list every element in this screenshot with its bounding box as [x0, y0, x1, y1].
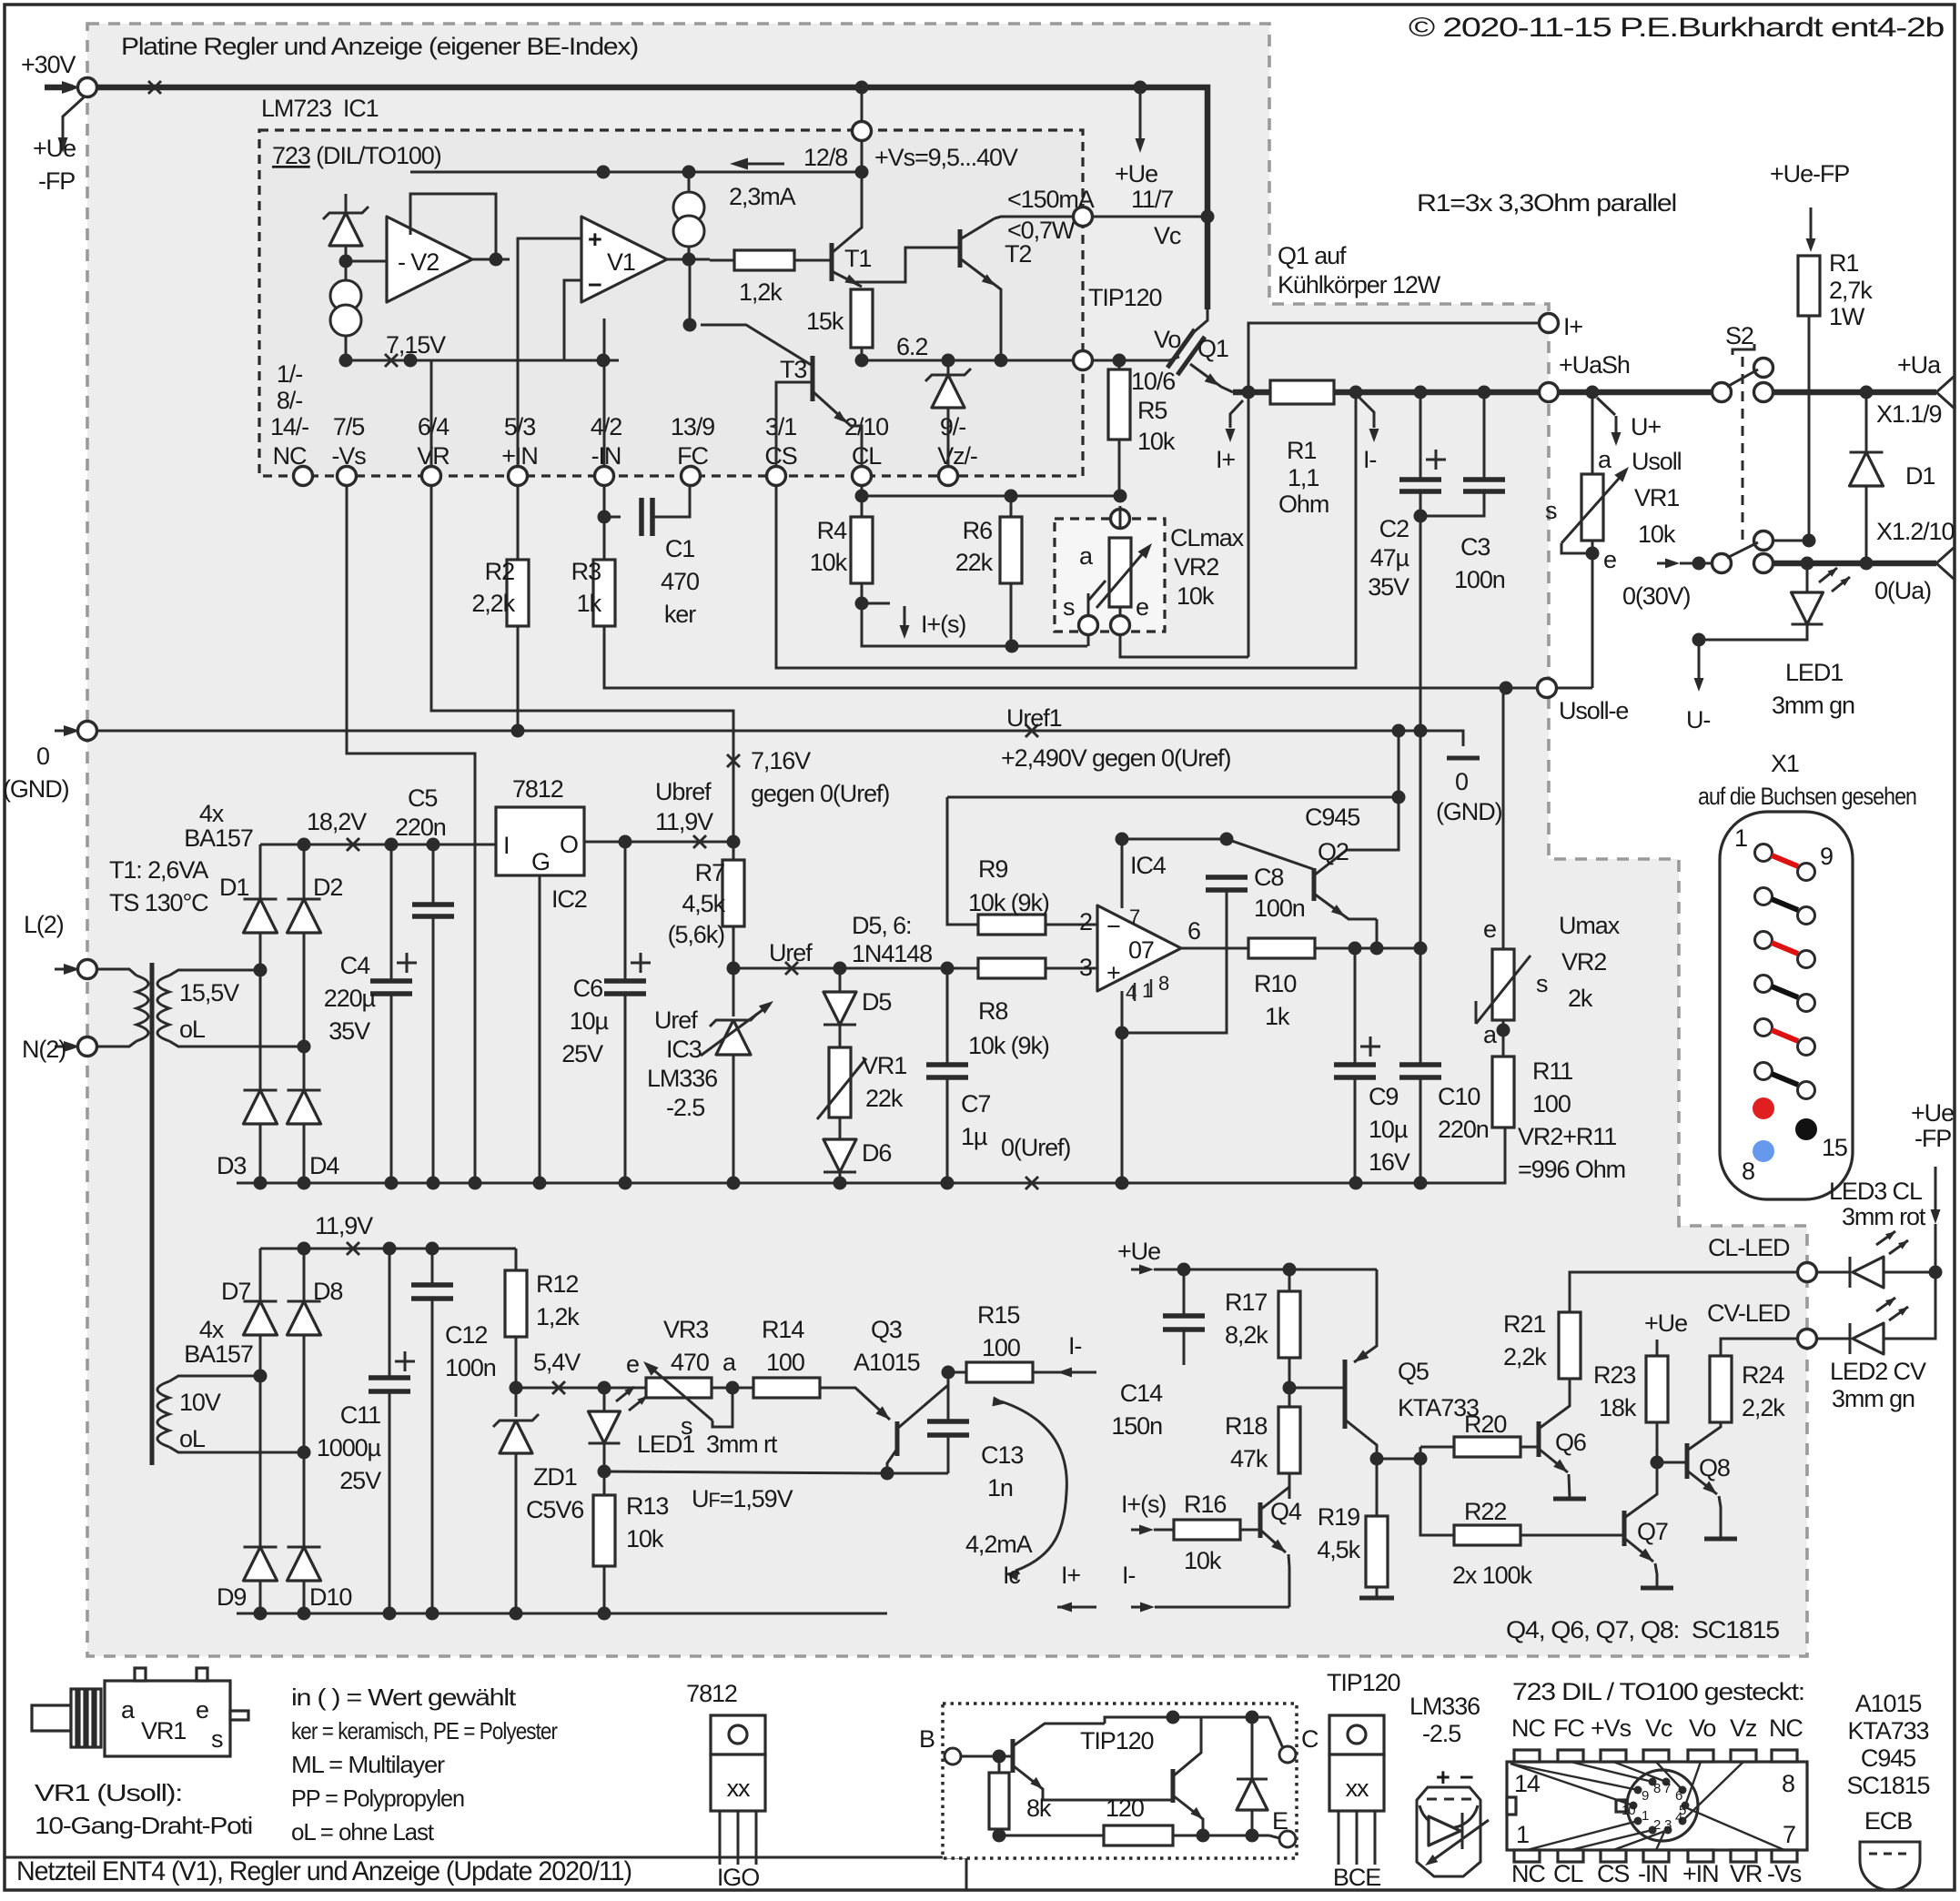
svg-text:Usoll: Usoll — [1632, 448, 1682, 475]
svg-text:ker: ker — [664, 601, 696, 628]
svg-text:© 2020-11-15 P.E.Burkhardt ent: © 2020-11-15 P.E.Burkhardt ent4-2b — [1409, 13, 1945, 43]
svg-text:7,16V: 7,16V — [751, 747, 811, 774]
svg-text:IC2: IC2 — [551, 885, 587, 913]
svg-text:8: 8 — [1158, 972, 1169, 995]
svg-text:47k: 47k — [1230, 1445, 1268, 1472]
wire 0(30V) stub — [1665, 559, 1680, 569]
svg-text:Netzteil ENT4 (V1), Regler und: Netzteil ENT4 (V1), Regler und Anzeige (… — [16, 1856, 631, 1886]
terminal N(2) — [55, 1046, 73, 1048]
diode D1b — [259, 844, 262, 899]
svg-text:gegen 0(Uref): gegen 0(Uref) — [751, 780, 889, 807]
svg-text:S2: S2 — [1725, 322, 1753, 349]
svg-text:2: 2 — [1653, 1817, 1661, 1833]
svg-text:I-: I- — [1068, 1332, 1081, 1360]
terminal E — [1269, 1835, 1283, 1839]
svg-text:-2.5: -2.5 — [1422, 1720, 1460, 1747]
wire VR pin up — [430, 360, 433, 467]
723 TO100 circle — [1627, 1770, 1698, 1841]
diode D10 — [303, 1452, 306, 1547]
diode D6 — [839, 1117, 842, 1139]
transistor Q3 A1015 — [819, 1388, 890, 1420]
svg-text:CS: CS — [764, 442, 796, 470]
svg-text:CL: CL — [852, 442, 882, 470]
svg-text:11,9V: 11,9V — [315, 1212, 373, 1239]
svg-text:R17: R17 — [1225, 1289, 1267, 1316]
svg-text:D5, 6:: D5, 6: — [852, 912, 911, 939]
pot VR2 Umax — [1502, 688, 1505, 949]
wire T2 emitter to Vo — [1000, 300, 1003, 360]
wire Uref — [733, 967, 947, 970]
svg-text:G: G — [531, 848, 550, 875]
svg-text:TIP120: TIP120 — [1080, 1727, 1154, 1754]
svg-text:U+: U+ — [1631, 413, 1661, 440]
wire T1 collector to +Vs — [861, 172, 864, 202]
wire 7812 out — [584, 841, 733, 844]
transformer T1 lower secondary — [169, 1376, 260, 1381]
transistor Q1 TIP120 — [1169, 357, 1179, 360]
svg-text:NC: NC — [1511, 1714, 1545, 1742]
svg-text:- V2: - V2 — [398, 248, 439, 276]
svg-text:s: s — [1545, 497, 1557, 524]
svg-text:FC: FC — [677, 442, 708, 470]
svg-text:<0,7W: <0,7W — [1007, 217, 1076, 244]
transistor Q7 — [1622, 1511, 1627, 1546]
svg-text:0: 0 — [1455, 768, 1468, 795]
wire R24 top CV — [1721, 1339, 1797, 1356]
svg-text:−: − — [588, 271, 601, 298]
svg-text:R6: R6 — [963, 517, 992, 544]
wire T1e to T2 base — [855, 248, 960, 282]
capacitor C6 — [624, 842, 627, 981]
wire Q2 collector — [1377, 731, 1399, 850]
capacitor C4 — [390, 844, 393, 981]
svg-text:15k: 15k — [806, 308, 844, 335]
svg-text:IC4: IC4 — [1130, 852, 1167, 879]
svg-text:Q4, Q6, Q7, Q8: SC1815: Q4, Q6, Q7, Q8: SC1815 — [1506, 1616, 1779, 1643]
svg-text:Vo: Vo — [1689, 1714, 1715, 1742]
wire VR3 wiper tie — [712, 1388, 732, 1427]
svg-text:9/-: 9/- — [940, 413, 965, 440]
svg-text:V1: V1 — [607, 248, 635, 276]
svg-text:IGO: IGO — [717, 1864, 759, 1891]
wire Q2 base net — [1122, 839, 1313, 869]
svg-text:C7: C7 — [961, 1090, 990, 1117]
transistor T1 — [830, 243, 834, 281]
svg-text:CL: CL — [1553, 1860, 1583, 1887]
svg-text:10/6: 10/6 — [1131, 368, 1175, 395]
node VR3 a — [726, 1381, 740, 1395]
svg-text:VR1: VR1 — [141, 1717, 186, 1744]
svg-text:R3: R3 — [571, 558, 601, 585]
svg-text:VR: VR — [1730, 1860, 1763, 1887]
svg-text:D5: D5 — [862, 988, 891, 1016]
svg-text:BA157: BA157 — [184, 824, 253, 852]
svg-text:a: a — [1079, 542, 1094, 570]
svg-text:1,2k: 1,2k — [739, 278, 783, 306]
svg-text:4/2: 4/2 — [591, 413, 621, 440]
resistor R3 — [593, 560, 615, 626]
723 crossing wires — [1510, 1764, 1633, 1805]
svg-text:R13: R13 — [626, 1492, 668, 1520]
svg-text:+IN: +IN — [501, 442, 537, 470]
transistor TQ1 — [1011, 1739, 1015, 1773]
pot pins s e — [1079, 616, 1098, 635]
svg-text:a: a — [1598, 446, 1612, 473]
svg-text:LED1 3mm rt: LED1 3mm rt — [637, 1431, 778, 1458]
svg-text:s: s — [681, 1412, 692, 1440]
svg-text:VR2+R11: VR2+R11 — [1518, 1123, 1616, 1150]
svg-text:I+: I+ — [1216, 446, 1235, 473]
svg-text:10k: 10k — [626, 1525, 664, 1552]
TIP120 equivalent box — [943, 1704, 1297, 1858]
switch S2 pole2 — [1712, 554, 1732, 573]
wire Vo rail — [862, 359, 1074, 362]
svg-text:BA157: BA157 — [184, 1340, 253, 1368]
svg-text:14/-: 14/- — [270, 413, 308, 440]
capacitor C5 — [432, 844, 435, 905]
svg-text:R16: R16 — [1184, 1491, 1226, 1518]
svg-text:+Ue: +Ue — [1644, 1309, 1687, 1337]
resistor VR2 CLmax pot — [1111, 510, 1130, 529]
svg-text:e: e — [1603, 546, 1616, 573]
resistor 8k — [998, 1756, 1001, 1773]
resistor R1 1,1 — [1270, 380, 1334, 404]
svg-text:FC: FC — [1553, 1714, 1584, 1742]
resistor R11 — [1492, 1057, 1514, 1127]
I- stub q4 — [1140, 1603, 1155, 1613]
svg-text:723 DIL / TO100 gesteckt:: 723 DIL / TO100 gesteckt: — [1512, 1678, 1804, 1705]
node Q3c — [881, 1467, 894, 1481]
svg-text:(GND): (GND) — [3, 775, 69, 803]
wire LED node run — [604, 1471, 887, 1473]
svg-text:Q4: Q4 — [1270, 1498, 1302, 1525]
svg-text:22k: 22k — [865, 1085, 904, 1112]
wire 11,9V rail — [260, 1248, 516, 1250]
wire V2 feedback — [346, 260, 387, 263]
wire usoll-e — [1500, 682, 1513, 695]
svg-text:35V: 35V — [1368, 573, 1409, 601]
svg-text:R1: R1 — [1287, 437, 1316, 464]
svg-text:11,9V: 11,9V — [655, 808, 713, 835]
svg-text:2k: 2k — [1568, 985, 1593, 1012]
svg-text:D1: D1 — [219, 874, 248, 901]
wire CL pin down — [861, 486, 864, 517]
svg-text:18k: 18k — [1599, 1394, 1637, 1421]
LED1 green — [1806, 563, 1809, 592]
ref IC3 LM336 — [732, 968, 735, 1016]
resistor R13 — [603, 1471, 606, 1495]
svg-text:12/8: 12/8 — [803, 144, 847, 171]
svg-text:10k: 10k — [1638, 521, 1676, 548]
svg-text:e: e — [1483, 915, 1496, 943]
svg-text:7812: 7812 — [512, 775, 563, 803]
svg-text:D8: D8 — [313, 1278, 342, 1305]
svg-text:I+(s): I+(s) — [921, 611, 965, 638]
resistor R15 — [948, 1371, 966, 1374]
svg-text:NC: NC — [1511, 1860, 1545, 1887]
svg-text:+UaSh: +UaSh — [1559, 351, 1630, 379]
svg-text:100: 100 — [766, 1349, 804, 1376]
wire s down — [1087, 635, 1090, 646]
wire C13 bottom — [887, 1472, 948, 1475]
svg-text:O: O — [560, 831, 578, 858]
svg-text:KTA733: KTA733 — [1848, 1717, 1929, 1744]
svg-text:15: 15 — [1822, 1134, 1847, 1161]
svg-text:D2: D2 — [313, 874, 342, 901]
svg-text:e: e — [1136, 593, 1148, 621]
S2 link dashed — [1742, 357, 1744, 546]
op-amp U-IC4 — [1097, 905, 1181, 991]
svg-text:Ubref: Ubref — [655, 778, 712, 805]
IC1 bottom pin circles — [294, 467, 313, 486]
node +30V terminal — [78, 78, 97, 97]
wire +Ue feed — [1131, 1269, 1139, 1271]
svg-text:+Vs=9,5...40V: +Vs=9,5...40V — [874, 144, 1018, 171]
svg-text:0(30V): 0(30V) — [1622, 582, 1691, 610]
wire 0(Uref) rail — [237, 1127, 1505, 1183]
svg-text:s: s — [1063, 593, 1075, 621]
LED3 CL red — [1817, 1271, 1850, 1274]
wire e down — [1120, 635, 1248, 657]
IC1 dashed box — [259, 130, 1083, 476]
svg-text:C2: C2 — [1379, 515, 1409, 542]
svg-text:Q5: Q5 — [1398, 1358, 1429, 1385]
svg-text:Q6: Q6 — [1555, 1429, 1586, 1456]
arrow I+(s) — [862, 602, 890, 605]
svg-text:a: a — [722, 1349, 737, 1376]
svg-text:CLmax: CLmax — [1170, 524, 1245, 551]
svg-text:C11: C11 — [340, 1401, 380, 1429]
svg-text:22k: 22k — [955, 549, 994, 576]
wire D bridge mid1 — [259, 970, 262, 1090]
svg-text:3: 3 — [1079, 954, 1092, 981]
svg-text:7: 7 — [1129, 905, 1140, 928]
svg-text:2,3mA: 2,3mA — [729, 183, 796, 210]
X1 colour dots — [1753, 1097, 1774, 1119]
wire 5,4V — [516, 1387, 647, 1390]
svg-text:-FP: -FP — [1915, 1125, 1951, 1152]
svg-text:1k: 1k — [1265, 1003, 1290, 1030]
wire R9 feedback top — [947, 796, 1399, 799]
svg-text:8/-: 8/- — [277, 387, 302, 414]
723 TO100 pins — [1634, 1786, 1642, 1795]
zener D internal — [323, 207, 369, 219]
wire GND rail — [97, 731, 1463, 746]
op-amp V1 — [581, 217, 667, 302]
diode D3 — [244, 1089, 278, 1092]
svg-text:5/3: 5/3 — [504, 413, 535, 440]
svg-text:220n: 220n — [395, 814, 446, 841]
svg-text:Vz/-: Vz/- — [937, 442, 977, 470]
svg-text:R18: R18 — [1225, 1412, 1267, 1440]
CV-LED terminal — [1798, 1330, 1817, 1349]
svg-text:xx: xx — [1346, 1775, 1369, 1802]
svg-text:s: s — [211, 1725, 223, 1753]
svg-text:10µ: 10µ — [1369, 1116, 1408, 1143]
svg-text:D4: D4 — [309, 1152, 339, 1179]
svg-text:C: C — [1301, 1725, 1318, 1753]
svg-text:10V: 10V — [179, 1389, 221, 1416]
svg-text:Usoll-e: Usoll-e — [1559, 697, 1628, 724]
svg-text:(GND): (GND) — [1436, 798, 1502, 825]
svg-text:R15: R15 — [977, 1301, 1019, 1329]
svg-text:R20: R20 — [1464, 1411, 1506, 1438]
svg-text:10k (9k): 10k (9k) — [968, 1032, 1049, 1059]
svg-text:R12: R12 — [536, 1270, 578, 1298]
arrow U+ stub — [1597, 398, 1615, 415]
svg-text:VR1: VR1 — [1634, 484, 1679, 511]
svg-text:220n: 220n — [1438, 1116, 1489, 1143]
svg-text:2x 100k: 2x 100k — [1452, 1562, 1532, 1589]
svg-text:2: 2 — [1079, 908, 1092, 935]
svg-text:NC: NC — [273, 442, 307, 470]
svg-text:100n: 100n — [1254, 895, 1305, 922]
pin Vo circle — [1074, 351, 1093, 370]
svg-text:+IN: +IN — [1682, 1860, 1718, 1887]
box CLmax — [1055, 519, 1165, 632]
resistor R17 — [1288, 1269, 1291, 1291]
svg-text:T1: T1 — [844, 245, 871, 272]
svg-text:5,4V: 5,4V — [533, 1349, 581, 1376]
diode D1 — [1865, 392, 1868, 452]
wire Q5 collector node — [1370, 1452, 1384, 1466]
svg-text:I-: I- — [1122, 1562, 1135, 1589]
svg-text:3/1: 3/1 — [765, 413, 796, 440]
svg-text:Vo: Vo — [1154, 326, 1180, 353]
svg-text:470: 470 — [671, 1349, 709, 1376]
svg-text:9: 9 — [1642, 1788, 1649, 1804]
svg-text:D3: D3 — [217, 1152, 246, 1179]
terminal +UaSh — [1540, 383, 1559, 402]
svg-text:(5,6k): (5,6k) — [668, 921, 725, 948]
svg-text:C4: C4 — [340, 952, 370, 979]
capacitor C9 — [1354, 948, 1357, 1065]
svg-text:Kühlkörper 12W: Kühlkörper 12W — [1278, 271, 1441, 298]
node int A — [339, 255, 353, 268]
svg-text:1,1: 1,1 — [1288, 464, 1318, 491]
terminal B — [945, 1748, 961, 1764]
svg-text:C5V6: C5V6 — [526, 1496, 583, 1523]
svg-text:D1: D1 — [1905, 462, 1935, 490]
svg-text:oL: oL — [179, 1425, 206, 1452]
svg-text:I: I — [503, 832, 509, 859]
svg-text:TIP120: TIP120 — [1088, 284, 1162, 311]
svg-text:+: + — [588, 226, 601, 253]
svg-text:7: 7 — [1663, 1781, 1671, 1796]
svg-text:10k (9k): 10k (9k) — [968, 889, 1049, 916]
svg-text:14: 14 — [1514, 1770, 1541, 1797]
svg-text:-IN: -IN — [1638, 1860, 1668, 1887]
terminal 0 GND — [55, 730, 73, 733]
svg-text:100n: 100n — [445, 1354, 496, 1381]
svg-text:R24: R24 — [1742, 1361, 1784, 1389]
svg-text:1W: 1W — [1829, 303, 1865, 330]
svg-text:1000µ: 1000µ — [317, 1434, 381, 1461]
svg-text:oL = ohne Last: oL = ohne Last — [291, 1818, 435, 1845]
svg-text:1/-: 1/- — [277, 360, 302, 388]
diode D2b — [303, 844, 306, 899]
svg-text:6: 6 — [1187, 917, 1200, 945]
resistor R19 — [1376, 1459, 1379, 1516]
node R15 left — [942, 1366, 955, 1380]
wire X1.2 rail — [1773, 561, 1936, 567]
svg-text:C945: C945 — [1861, 1744, 1915, 1772]
svg-text:10k: 10k — [1137, 428, 1176, 455]
svg-text:LM336: LM336 — [647, 1065, 717, 1092]
pot VR3 470 — [646, 1378, 712, 1398]
svg-text:L(2): L(2) — [24, 911, 64, 938]
svg-text:R8: R8 — [978, 997, 1007, 1025]
svg-text:11/7: 11/7 — [1131, 186, 1173, 213]
wire R4 bottom run — [862, 603, 1087, 646]
current source I1 — [330, 280, 361, 311]
X1 links — [1772, 855, 1798, 866]
svg-text:oL: oL — [179, 1016, 206, 1043]
svg-text:R2: R2 — [485, 558, 514, 585]
svg-text:4: 4 — [1675, 1810, 1682, 1825]
capacitor C8 — [1206, 875, 1248, 880]
diode D5 — [839, 968, 842, 992]
svg-text:Q8: Q8 — [1699, 1454, 1730, 1481]
svg-text:UF=1,59V: UF=1,59V — [692, 1485, 793, 1512]
svg-text:9: 9 — [1820, 843, 1833, 870]
wire CS pin down — [776, 395, 1356, 668]
svg-text:+Ue: +Ue — [1911, 1099, 1954, 1127]
svg-text:R7: R7 — [695, 859, 724, 886]
svg-text:-2.5: -2.5 — [666, 1094, 704, 1121]
svg-text:D9: D9 — [217, 1583, 246, 1611]
wire top rail tip — [1105, 1717, 1252, 1724]
diode D9 — [244, 1546, 278, 1549]
svg-text:auf die Buchsen gesehen: auf die Buchsen gesehen — [1698, 783, 1916, 810]
svg-text:2,7k: 2,7k — [1829, 277, 1873, 304]
svg-text:8: 8 — [1782, 1770, 1794, 1797]
svg-text:1: 1 — [1642, 1808, 1649, 1824]
svg-text:Q3: Q3 — [871, 1316, 902, 1343]
svg-text:0(Ua): 0(Ua) — [1874, 577, 1931, 604]
arrow I- sense — [1349, 386, 1363, 399]
svg-text:LED2 CV: LED2 CV — [1830, 1358, 1926, 1385]
resistor R23 — [1646, 1356, 1668, 1422]
svg-text:VR2: VR2 — [1174, 553, 1218, 581]
svg-text:R19: R19 — [1318, 1503, 1359, 1531]
svg-text:1n: 1n — [987, 1474, 1013, 1502]
svg-text:120: 120 — [1106, 1795, 1144, 1822]
svg-text:ZD1: ZD1 — [533, 1463, 577, 1491]
svg-text:CV-LED: CV-LED — [1707, 1299, 1791, 1327]
svg-text:-FP: -FP — [38, 167, 75, 195]
svg-text:150n: 150n — [1111, 1412, 1162, 1440]
wire +30V top rail — [97, 87, 1207, 309]
transformer T1 secondary — [169, 970, 260, 976]
svg-text:VR: VR — [417, 442, 450, 470]
svg-text:+: + — [1106, 959, 1120, 986]
title box divider — [5, 1857, 966, 1890]
wire I+ sense — [1540, 314, 1559, 333]
wire R9 left — [947, 797, 978, 925]
node C2 junction — [1414, 386, 1428, 399]
svg-text:10-Gang-Draht-Poti: 10-Gang-Draht-Poti — [35, 1812, 252, 1839]
svg-text:13/9: 13/9 — [671, 413, 714, 440]
svg-text:D10: D10 — [309, 1583, 351, 1611]
+Ue stub R23 — [1656, 1340, 1659, 1356]
wire IC4 pin7 up — [1121, 839, 1124, 908]
wire IC1 top internal rail — [410, 171, 862, 174]
svg-text:7812: 7812 — [686, 1680, 737, 1707]
svg-text:4,5k: 4,5k — [1317, 1536, 1360, 1563]
capacitor C2 — [1419, 392, 1422, 480]
diode D7 — [259, 1249, 262, 1301]
